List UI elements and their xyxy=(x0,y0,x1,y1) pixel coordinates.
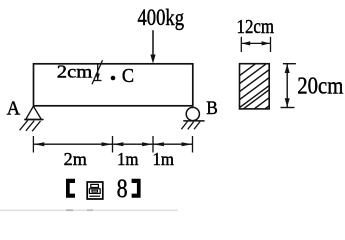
svg-text:8: 8 xyxy=(117,174,128,203)
caption character tu (figure) xyxy=(87,182,103,199)
caption left bracket xyxy=(66,179,75,198)
small dimension mark (arrow with slash) for 2cm xyxy=(92,60,103,84)
svg-text:20cm: 20cm xyxy=(297,74,343,100)
width dimension 12cm (ticks and outward arrows) xyxy=(241,37,270,52)
svg-text:400kg: 400kg xyxy=(138,5,185,30)
svg-text:C: C xyxy=(122,65,134,87)
hatching under roller support xyxy=(181,122,200,130)
height dimension 20cm (vertical double arrow) xyxy=(281,64,296,108)
pin support at A (triangle) xyxy=(24,106,43,119)
load arrow xyxy=(150,30,155,63)
beam outline xyxy=(34,64,193,106)
faint scan artifact line at bottom xyxy=(0,209,178,211)
svg-text:1m: 1m xyxy=(153,149,175,169)
svg-text:A: A xyxy=(7,98,21,120)
caption right bracket xyxy=(132,179,141,198)
svg-text:B: B xyxy=(206,98,218,119)
hatching under pin support xyxy=(20,120,41,131)
cross-section rectangle with hatching xyxy=(236,51,273,112)
roller support at B (circle) xyxy=(183,107,204,121)
arrowheads xyxy=(34,142,45,146)
svg-text:2m: 2m xyxy=(64,149,87,169)
svg-text:2cm: 2cm xyxy=(57,62,93,82)
svg-text:1m: 1m xyxy=(117,149,139,169)
span dimension line with ticks xyxy=(33,136,192,153)
svg-text:12cm: 12cm xyxy=(237,16,275,38)
point C dot xyxy=(111,76,116,81)
